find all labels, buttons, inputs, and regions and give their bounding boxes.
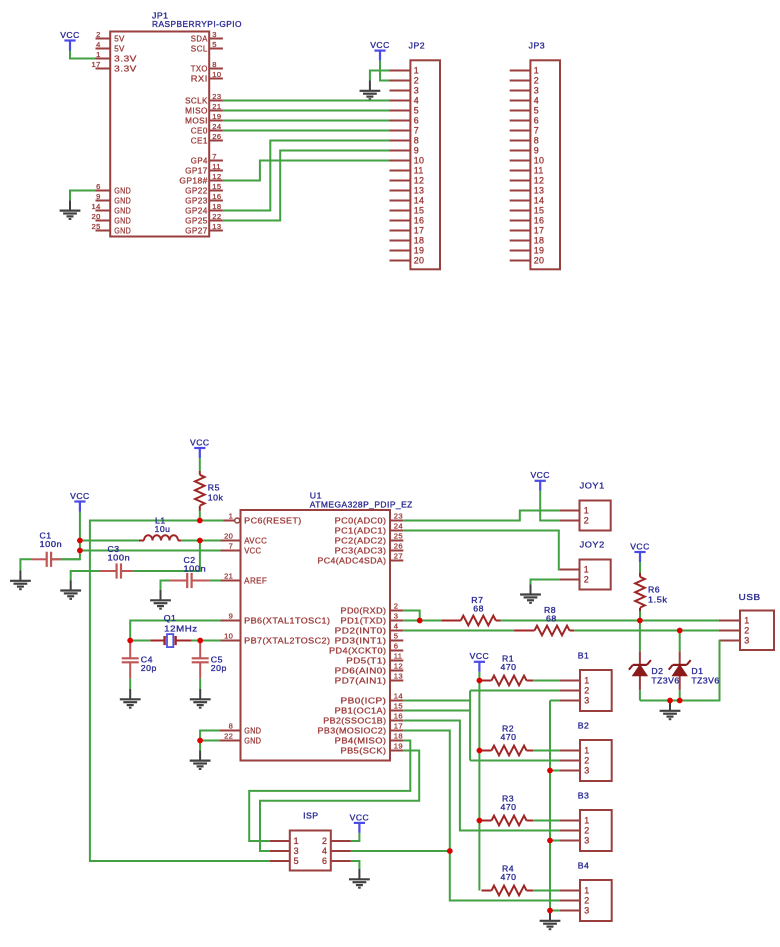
ground symbol below C2 bbox=[150, 590, 171, 609]
wire R7 to USB.1 bbox=[501, 620, 719, 622]
svg-text:1: 1 bbox=[584, 746, 589, 756]
svg-text:10: 10 bbox=[414, 156, 424, 166]
svg-text:3: 3 bbox=[744, 636, 749, 646]
svg-text:PD6(AIN0): PD6(AIN0) bbox=[335, 666, 387, 675]
svg-text:Q1: Q1 bbox=[164, 613, 177, 623]
junction AVCC/C3 branch bbox=[197, 538, 203, 544]
resistor R2 bbox=[482, 746, 534, 756]
resistor R3 bbox=[482, 816, 534, 826]
svg-text:18: 18 bbox=[414, 236, 424, 246]
ground symbol below C4 bbox=[120, 689, 141, 708]
svg-text:10: 10 bbox=[224, 632, 233, 641]
wire C2 left to ground bbox=[161, 581, 171, 591]
svg-text:8: 8 bbox=[229, 722, 234, 731]
svg-text:PB6(XTAL1TOSC1): PB6(XTAL1TOSC1) bbox=[244, 616, 330, 625]
JP1 pin numbers bbox=[92, 30, 222, 231]
svg-text:PD5(T1): PD5(T1) bbox=[346, 656, 386, 665]
wire R4 to B4.1 bbox=[533, 890, 560, 892]
power VCC symbol at JP2 bbox=[370, 40, 390, 61]
U1 left pin stubs bbox=[220, 521, 241, 741]
svg-text:2: 2 bbox=[584, 826, 589, 836]
wire VCC to ISP.2 bbox=[351, 833, 360, 841]
svg-text:1: 1 bbox=[744, 616, 749, 626]
svg-text:15: 15 bbox=[394, 702, 403, 711]
wire C5 bottom to ground bbox=[199, 679, 201, 689]
power VCC symbol at JP1 bbox=[60, 30, 80, 51]
svg-text:6: 6 bbox=[534, 116, 539, 126]
capacitor C4 bbox=[122, 641, 139, 679]
svg-text:TZ3V6: TZ3V6 bbox=[691, 676, 719, 686]
wire R6 bottom to USB1 line bbox=[639, 611, 641, 621]
svg-text:100n: 100n bbox=[184, 564, 207, 574]
junction rail/R1 bbox=[477, 678, 483, 684]
junction B2.3 bbox=[547, 768, 553, 774]
svg-text:JOY2: JOY2 bbox=[580, 540, 605, 550]
ground symbol below ISP bbox=[349, 869, 370, 888]
connector B2 body bbox=[580, 740, 612, 781]
svg-text:5: 5 bbox=[394, 632, 399, 641]
svg-text:3: 3 bbox=[294, 846, 299, 856]
svg-text:3.3V: 3.3V bbox=[114, 54, 137, 63]
svg-text:5: 5 bbox=[294, 856, 299, 866]
wire net GP25 JP1.22 to JP2.9 bbox=[223, 151, 390, 221]
svg-text:19: 19 bbox=[212, 112, 221, 121]
wire VCC stem to R1 junction bbox=[478, 672, 480, 681]
B4 pin stubs bbox=[560, 891, 580, 911]
connector JP1 body bbox=[110, 32, 209, 237]
svg-text:1: 1 bbox=[414, 66, 419, 76]
svg-text:PC4(ADC4SDA): PC4(ADC4SDA) bbox=[318, 556, 387, 565]
wire net RXD U1.2 jog down bbox=[403, 611, 419, 621]
svg-text:PC3(ADC3): PC3(ADC3) bbox=[335, 546, 387, 555]
svg-text:19: 19 bbox=[414, 246, 424, 256]
svg-text:PB0(ICP): PB0(ICP) bbox=[341, 696, 387, 705]
power VCC symbol at ISP bbox=[350, 812, 370, 833]
crystal Q1 bbox=[150, 634, 191, 647]
svg-text:PB5(SCK): PB5(SCK) bbox=[341, 746, 387, 755]
wire VCC to JOY1.2 bbox=[540, 491, 560, 521]
svg-text:22: 22 bbox=[224, 732, 233, 741]
wire crystal left wire bbox=[130, 640, 150, 642]
svg-text:23: 23 bbox=[212, 92, 221, 101]
wire U1.22 GND west bbox=[200, 740, 220, 742]
wire D2 top from junction bbox=[639, 621, 641, 652]
svg-text:3: 3 bbox=[212, 30, 217, 39]
svg-text:GP27: GP27 bbox=[185, 226, 208, 235]
wire net MISO U1.18 to ISP.1 bbox=[249, 741, 410, 842]
svg-text:AVCC: AVCC bbox=[244, 536, 267, 545]
ground symbol below C3 bbox=[60, 580, 81, 599]
svg-text:21: 21 bbox=[212, 102, 221, 111]
svg-text:R6: R6 bbox=[648, 585, 660, 595]
svg-text:1: 1 bbox=[584, 816, 589, 826]
svg-text:15: 15 bbox=[414, 206, 424, 216]
junction RESET/R5 bbox=[197, 518, 203, 524]
B2 pin numbers bbox=[584, 746, 589, 776]
svg-text:CE1: CE1 bbox=[191, 136, 208, 145]
wire net PB3 U1.17 vertical to B4.2 bbox=[403, 731, 560, 901]
svg-text:7: 7 bbox=[534, 126, 539, 136]
svg-text:7: 7 bbox=[229, 542, 234, 551]
wire JOY2.2 to ground bbox=[531, 580, 561, 585]
svg-text:2: 2 bbox=[584, 516, 589, 526]
wire JP1 pin6 GND to ground bbox=[70, 191, 96, 201]
svg-text:26: 26 bbox=[394, 542, 403, 551]
wire C1 right lead to rail bbox=[61, 558, 80, 560]
junction D1 on USB2 line bbox=[677, 628, 683, 634]
wire B4.3 to rail bbox=[550, 910, 560, 912]
svg-text:68: 68 bbox=[546, 614, 557, 624]
wire VCC down to JP2 pin1 bbox=[380, 61, 390, 71]
svg-text:JOY1: JOY1 bbox=[580, 481, 605, 491]
wire R8 to USB.2 bbox=[574, 630, 719, 632]
ISP pin stubs bbox=[270, 841, 351, 861]
capacitor C1 bbox=[31, 552, 61, 567]
JOY2 pin stubs bbox=[560, 570, 580, 580]
svg-text:B3: B3 bbox=[578, 790, 590, 800]
svg-text:7: 7 bbox=[414, 126, 419, 136]
svg-text:20: 20 bbox=[414, 256, 424, 266]
svg-text:5V: 5V bbox=[114, 34, 125, 43]
wire D1 bottom to rail bbox=[679, 690, 681, 700]
svg-text:5: 5 bbox=[212, 40, 217, 49]
svg-text:6: 6 bbox=[322, 856, 327, 866]
svg-text:PC1(ADC1): PC1(ADC1) bbox=[335, 526, 387, 535]
svg-text:25: 25 bbox=[394, 532, 403, 541]
svg-text:5: 5 bbox=[414, 106, 419, 116]
wire VCC to JP1 pin1 3.3V bbox=[70, 51, 96, 59]
svg-text:13: 13 bbox=[414, 186, 424, 196]
svg-text:GND: GND bbox=[114, 226, 131, 235]
svg-text:GP17: GP17 bbox=[185, 166, 208, 175]
svg-text:3: 3 bbox=[584, 766, 589, 776]
svg-text:GND: GND bbox=[114, 196, 131, 205]
JP1 pin names bbox=[114, 34, 208, 235]
svg-text:AREF: AREF bbox=[244, 576, 267, 585]
svg-text:9: 9 bbox=[534, 146, 539, 156]
svg-text:1: 1 bbox=[229, 512, 234, 521]
svg-text:1: 1 bbox=[584, 676, 589, 686]
svg-text:PB1(OC1A): PB1(OC1A) bbox=[335, 706, 387, 715]
wire VCC to R6 top bbox=[639, 562, 641, 573]
svg-text:GP22: GP22 bbox=[185, 186, 208, 195]
svg-text:ATMEGA328P_PDIP_EZ: ATMEGA328P_PDIP_EZ bbox=[310, 499, 413, 509]
svg-text:20p: 20p bbox=[211, 663, 227, 673]
svg-text:SCL: SCL bbox=[191, 44, 208, 53]
svg-text:PB7(XTAL2TOSC2): PB7(XTAL2TOSC2) bbox=[244, 636, 330, 645]
wire net MOSI JP1.19 to JP2.6 bbox=[223, 120, 390, 122]
svg-text:GP18#: GP18# bbox=[179, 176, 208, 185]
connector B3 body bbox=[580, 810, 612, 851]
wire R3 to B3.1 bbox=[533, 820, 560, 822]
svg-text:VCC: VCC bbox=[470, 651, 490, 661]
ground symbol below diodes bbox=[660, 701, 681, 720]
JOY2 pin numbers bbox=[584, 565, 589, 585]
connector JOY2 body bbox=[580, 560, 611, 590]
svg-text:20: 20 bbox=[224, 532, 233, 541]
resistor R4 bbox=[482, 886, 534, 896]
wire net XTAL2 to U1.10 bbox=[200, 640, 220, 642]
ground symbol below C5 bbox=[190, 689, 211, 708]
junction XTAL2/C5 bbox=[197, 638, 203, 644]
junction XTAL1/C4 bbox=[127, 638, 133, 644]
wire riser to B1.2 bbox=[470, 690, 560, 692]
resistor R1 bbox=[482, 676, 534, 686]
svg-text:22: 22 bbox=[212, 212, 221, 221]
wire ISP.6 to ground bbox=[351, 861, 360, 869]
svg-text:1.5k: 1.5k bbox=[648, 595, 668, 605]
wire B3.3 to rail bbox=[550, 840, 560, 842]
power VCC symbol above R5 bbox=[190, 437, 210, 458]
svg-text:12: 12 bbox=[212, 172, 221, 181]
svg-text:PB2(SSOC1B): PB2(SSOC1B) bbox=[323, 716, 386, 725]
JOY1 pin stubs bbox=[560, 511, 580, 521]
svg-text:27: 27 bbox=[394, 552, 403, 561]
svg-text:JP3: JP3 bbox=[529, 40, 545, 50]
junction RXD/TXD/R7 bbox=[417, 618, 423, 624]
svg-text:TXO: TXO bbox=[191, 64, 208, 73]
svg-text:13: 13 bbox=[212, 222, 221, 231]
svg-text:470: 470 bbox=[501, 662, 517, 672]
svg-text:9: 9 bbox=[96, 192, 101, 201]
connector B4 body bbox=[580, 880, 612, 921]
svg-text:18: 18 bbox=[534, 236, 544, 246]
inductor L1 bbox=[139, 535, 181, 540]
svg-text:GND: GND bbox=[244, 726, 261, 735]
wire vertical B1.2/B2.2 riser bbox=[469, 691, 471, 761]
svg-text:PD0(RXD): PD0(RXD) bbox=[341, 606, 387, 615]
svg-text:21: 21 bbox=[224, 572, 233, 581]
junction rail/R2 bbox=[477, 748, 483, 754]
svg-text:8: 8 bbox=[414, 136, 419, 146]
wire D1 top from junction bbox=[679, 631, 681, 652]
svg-text:GP4: GP4 bbox=[191, 156, 208, 165]
wire B2.3 to rail bbox=[550, 770, 560, 772]
svg-text:100n: 100n bbox=[108, 552, 131, 562]
svg-text:SDA: SDA bbox=[191, 34, 208, 43]
wire net RESET U1.1 west to ISP.5 vertical bbox=[90, 521, 270, 862]
svg-text:16: 16 bbox=[414, 216, 424, 226]
diode D1 bbox=[669, 651, 691, 690]
wire VCC rail down to C1 bbox=[51, 512, 80, 560]
svg-text:4: 4 bbox=[414, 96, 419, 106]
wire C3 left to ground bbox=[71, 571, 100, 580]
wire net PB2 U1.16 to B3.2 bbox=[403, 721, 560, 831]
svg-text:GND: GND bbox=[114, 216, 131, 225]
junction rail/VCC row bbox=[77, 548, 83, 554]
svg-text:4: 4 bbox=[322, 846, 327, 856]
svg-text:PB3(MOSIOC2): PB3(MOSIOC2) bbox=[318, 726, 387, 735]
svg-text:18: 18 bbox=[394, 732, 403, 741]
svg-text:68: 68 bbox=[473, 604, 484, 614]
wire net ADC1 U1.24 to JOY2.1 bbox=[403, 531, 560, 570]
svg-text:12: 12 bbox=[534, 176, 544, 186]
svg-text:6: 6 bbox=[96, 182, 101, 191]
svg-text:470: 470 bbox=[501, 732, 517, 742]
wire net VCC rail to U1.7 bbox=[80, 550, 221, 552]
wire AVCC junction down to C3 row bbox=[133, 541, 200, 572]
power VCC symbol at JOY1 bbox=[530, 470, 550, 491]
svg-text:B2: B2 bbox=[578, 720, 590, 730]
svg-text:11: 11 bbox=[414, 166, 424, 176]
svg-text:2: 2 bbox=[414, 76, 419, 86]
wire net GP18 JP1.12 to JP2.10 bbox=[223, 161, 390, 181]
wire B pin3 ground rail vertical bbox=[549, 701, 551, 911]
wire crystal right wire bbox=[192, 640, 201, 642]
svg-text:11: 11 bbox=[394, 652, 402, 661]
svg-text:4: 4 bbox=[534, 96, 539, 106]
svg-text:USB: USB bbox=[739, 592, 761, 602]
capacitor C2 bbox=[170, 573, 210, 588]
svg-text:1: 1 bbox=[534, 66, 539, 76]
svg-text:RXI: RXI bbox=[191, 74, 208, 83]
svg-text:2: 2 bbox=[584, 575, 589, 585]
svg-text:15: 15 bbox=[212, 182, 221, 191]
power VCC symbol above R1 bbox=[470, 651, 490, 672]
junction ISP.4 on PB3 vertical bbox=[447, 848, 453, 854]
svg-text:14: 14 bbox=[534, 196, 544, 206]
svg-text:2: 2 bbox=[534, 76, 539, 86]
svg-text:GP25: GP25 bbox=[185, 216, 208, 225]
svg-text:PC6(RESET): PC6(RESET) bbox=[244, 516, 302, 525]
wire net INT0 U1.4 to R8 bbox=[403, 630, 514, 632]
connector JP3 body bbox=[530, 60, 560, 269]
svg-text:470: 470 bbox=[501, 802, 517, 812]
svg-text:JP2: JP2 bbox=[409, 40, 425, 50]
svg-text:12: 12 bbox=[414, 176, 424, 186]
svg-text:3: 3 bbox=[584, 836, 589, 846]
svg-text:13: 13 bbox=[394, 672, 403, 681]
wire net AREF C2 to U1.21 bbox=[210, 580, 221, 582]
junction B4.3 bbox=[547, 908, 553, 914]
connector JOY1 body bbox=[580, 501, 611, 531]
svg-text:4: 4 bbox=[96, 40, 101, 49]
junction rail/R3 bbox=[477, 818, 483, 824]
JP2 pin stubs bbox=[390, 71, 411, 261]
svg-text:VCC: VCC bbox=[370, 40, 390, 50]
B3 pin numbers bbox=[584, 816, 589, 846]
svg-text:10k: 10k bbox=[208, 492, 224, 502]
USB pin numbers bbox=[744, 616, 749, 646]
resistor R8 bbox=[514, 626, 574, 636]
wire net PB0 U1.14 to B1.2 bbox=[403, 700, 470, 702]
svg-text:1: 1 bbox=[584, 886, 589, 896]
wire U1.8 GND west bbox=[200, 731, 220, 741]
wire VCC branch to JP2 pin2 bbox=[380, 71, 390, 81]
svg-text:CE0: CE0 bbox=[191, 126, 208, 135]
svg-text:ISP: ISP bbox=[303, 811, 319, 821]
svg-text:10u: 10u bbox=[155, 524, 171, 534]
wire B1.3 to rail bbox=[550, 700, 560, 702]
B1 pin stubs bbox=[560, 681, 580, 701]
USB pin stubs bbox=[719, 621, 740, 641]
junction R6/D2 on USB1 line bbox=[637, 618, 643, 624]
svg-text:15: 15 bbox=[534, 206, 544, 216]
svg-text:4: 4 bbox=[394, 622, 399, 631]
svg-text:17: 17 bbox=[92, 60, 101, 69]
wire VCC rail vertical R1-R4 bbox=[478, 681, 480, 891]
wire net ADC0 U1.23 to JOY1.1 bbox=[403, 511, 560, 521]
svg-text:PD2(INT0): PD2(INT0) bbox=[335, 626, 387, 635]
wire net SCLK JP1.23 to JP2.4 bbox=[223, 100, 390, 102]
resistor R6 bbox=[635, 573, 645, 611]
svg-text:MISO: MISO bbox=[185, 106, 208, 115]
ground symbol at JP2 bbox=[360, 81, 381, 100]
wire R5 bottom to RESET net bbox=[199, 511, 201, 521]
svg-text:470: 470 bbox=[501, 872, 517, 882]
wire net PB1 U1.15 to B2.2 vertical bbox=[403, 710, 470, 712]
svg-text:25: 25 bbox=[92, 222, 101, 231]
ground symbol at JP1 bbox=[60, 200, 81, 219]
JP3 pin numbers bbox=[534, 66, 544, 266]
svg-text:2: 2 bbox=[96, 30, 101, 39]
JP2 pin numbers bbox=[414, 66, 424, 266]
power VCC symbol above R6 bbox=[630, 541, 650, 562]
capacitor C5 bbox=[192, 641, 209, 679]
svg-text:PD3(INT1): PD3(INT1) bbox=[335, 636, 387, 645]
svg-text:3: 3 bbox=[534, 86, 539, 96]
JP3 pin stubs bbox=[510, 71, 531, 261]
svg-text:2: 2 bbox=[394, 602, 399, 611]
svg-text:PC2(ADC2): PC2(ADC2) bbox=[335, 536, 387, 545]
svg-text:14: 14 bbox=[92, 202, 101, 211]
wire R2 to B2.1 bbox=[533, 750, 560, 752]
svg-text:14: 14 bbox=[394, 692, 403, 701]
wire net MISO JP1.21 to JP2.5 bbox=[223, 110, 390, 112]
svg-text:VCC: VCC bbox=[244, 546, 261, 555]
capacitor C3 bbox=[100, 563, 133, 578]
svg-text:17: 17 bbox=[394, 722, 403, 731]
diode D2 bbox=[629, 651, 651, 690]
ground symbol below C1 bbox=[10, 571, 31, 590]
svg-text:RASPBERRYPI-GPIO: RASPBERRYPI-GPIO bbox=[152, 19, 242, 29]
svg-text:GP23: GP23 bbox=[185, 196, 208, 205]
svg-text:B4: B4 bbox=[578, 860, 590, 870]
svg-text:7: 7 bbox=[212, 152, 217, 161]
svg-text:14: 14 bbox=[414, 196, 424, 206]
svg-text:1: 1 bbox=[96, 50, 101, 59]
resistor R5 bbox=[195, 471, 205, 511]
svg-text:3: 3 bbox=[584, 696, 589, 706]
wire C4 bottom to ground bbox=[129, 679, 131, 689]
svg-text:GND: GND bbox=[114, 206, 131, 215]
wire net MOSI ISP.4 to PB3 vertical bbox=[351, 850, 450, 852]
svg-text:GND: GND bbox=[114, 186, 131, 195]
wire R1 to B1.1 bbox=[533, 680, 560, 682]
svg-text:2: 2 bbox=[584, 896, 589, 906]
svg-text:20: 20 bbox=[534, 256, 544, 266]
svg-text:9: 9 bbox=[414, 146, 419, 156]
svg-text:1: 1 bbox=[584, 506, 589, 516]
ISP pin numbers bbox=[294, 836, 328, 866]
B3 pin stubs bbox=[560, 821, 580, 841]
wire net CE0 JP1.24 to JP2.7 bbox=[223, 130, 390, 132]
connector B1 body bbox=[580, 670, 612, 711]
ground symbol below JOY2 bbox=[520, 584, 541, 603]
svg-text:VCC: VCC bbox=[190, 437, 210, 447]
svg-text:SCLK: SCLK bbox=[185, 96, 208, 105]
svg-text:GP24: GP24 bbox=[185, 206, 208, 215]
svg-text:100n: 100n bbox=[40, 539, 63, 549]
svg-text:20: 20 bbox=[92, 212, 101, 221]
svg-text:10: 10 bbox=[212, 70, 221, 79]
svg-text:11: 11 bbox=[212, 162, 220, 171]
B2 pin stubs bbox=[560, 751, 580, 771]
svg-text:1: 1 bbox=[584, 565, 589, 575]
svg-text:13: 13 bbox=[534, 186, 544, 196]
svg-text:R5: R5 bbox=[208, 482, 220, 492]
svg-text:2: 2 bbox=[584, 756, 589, 766]
